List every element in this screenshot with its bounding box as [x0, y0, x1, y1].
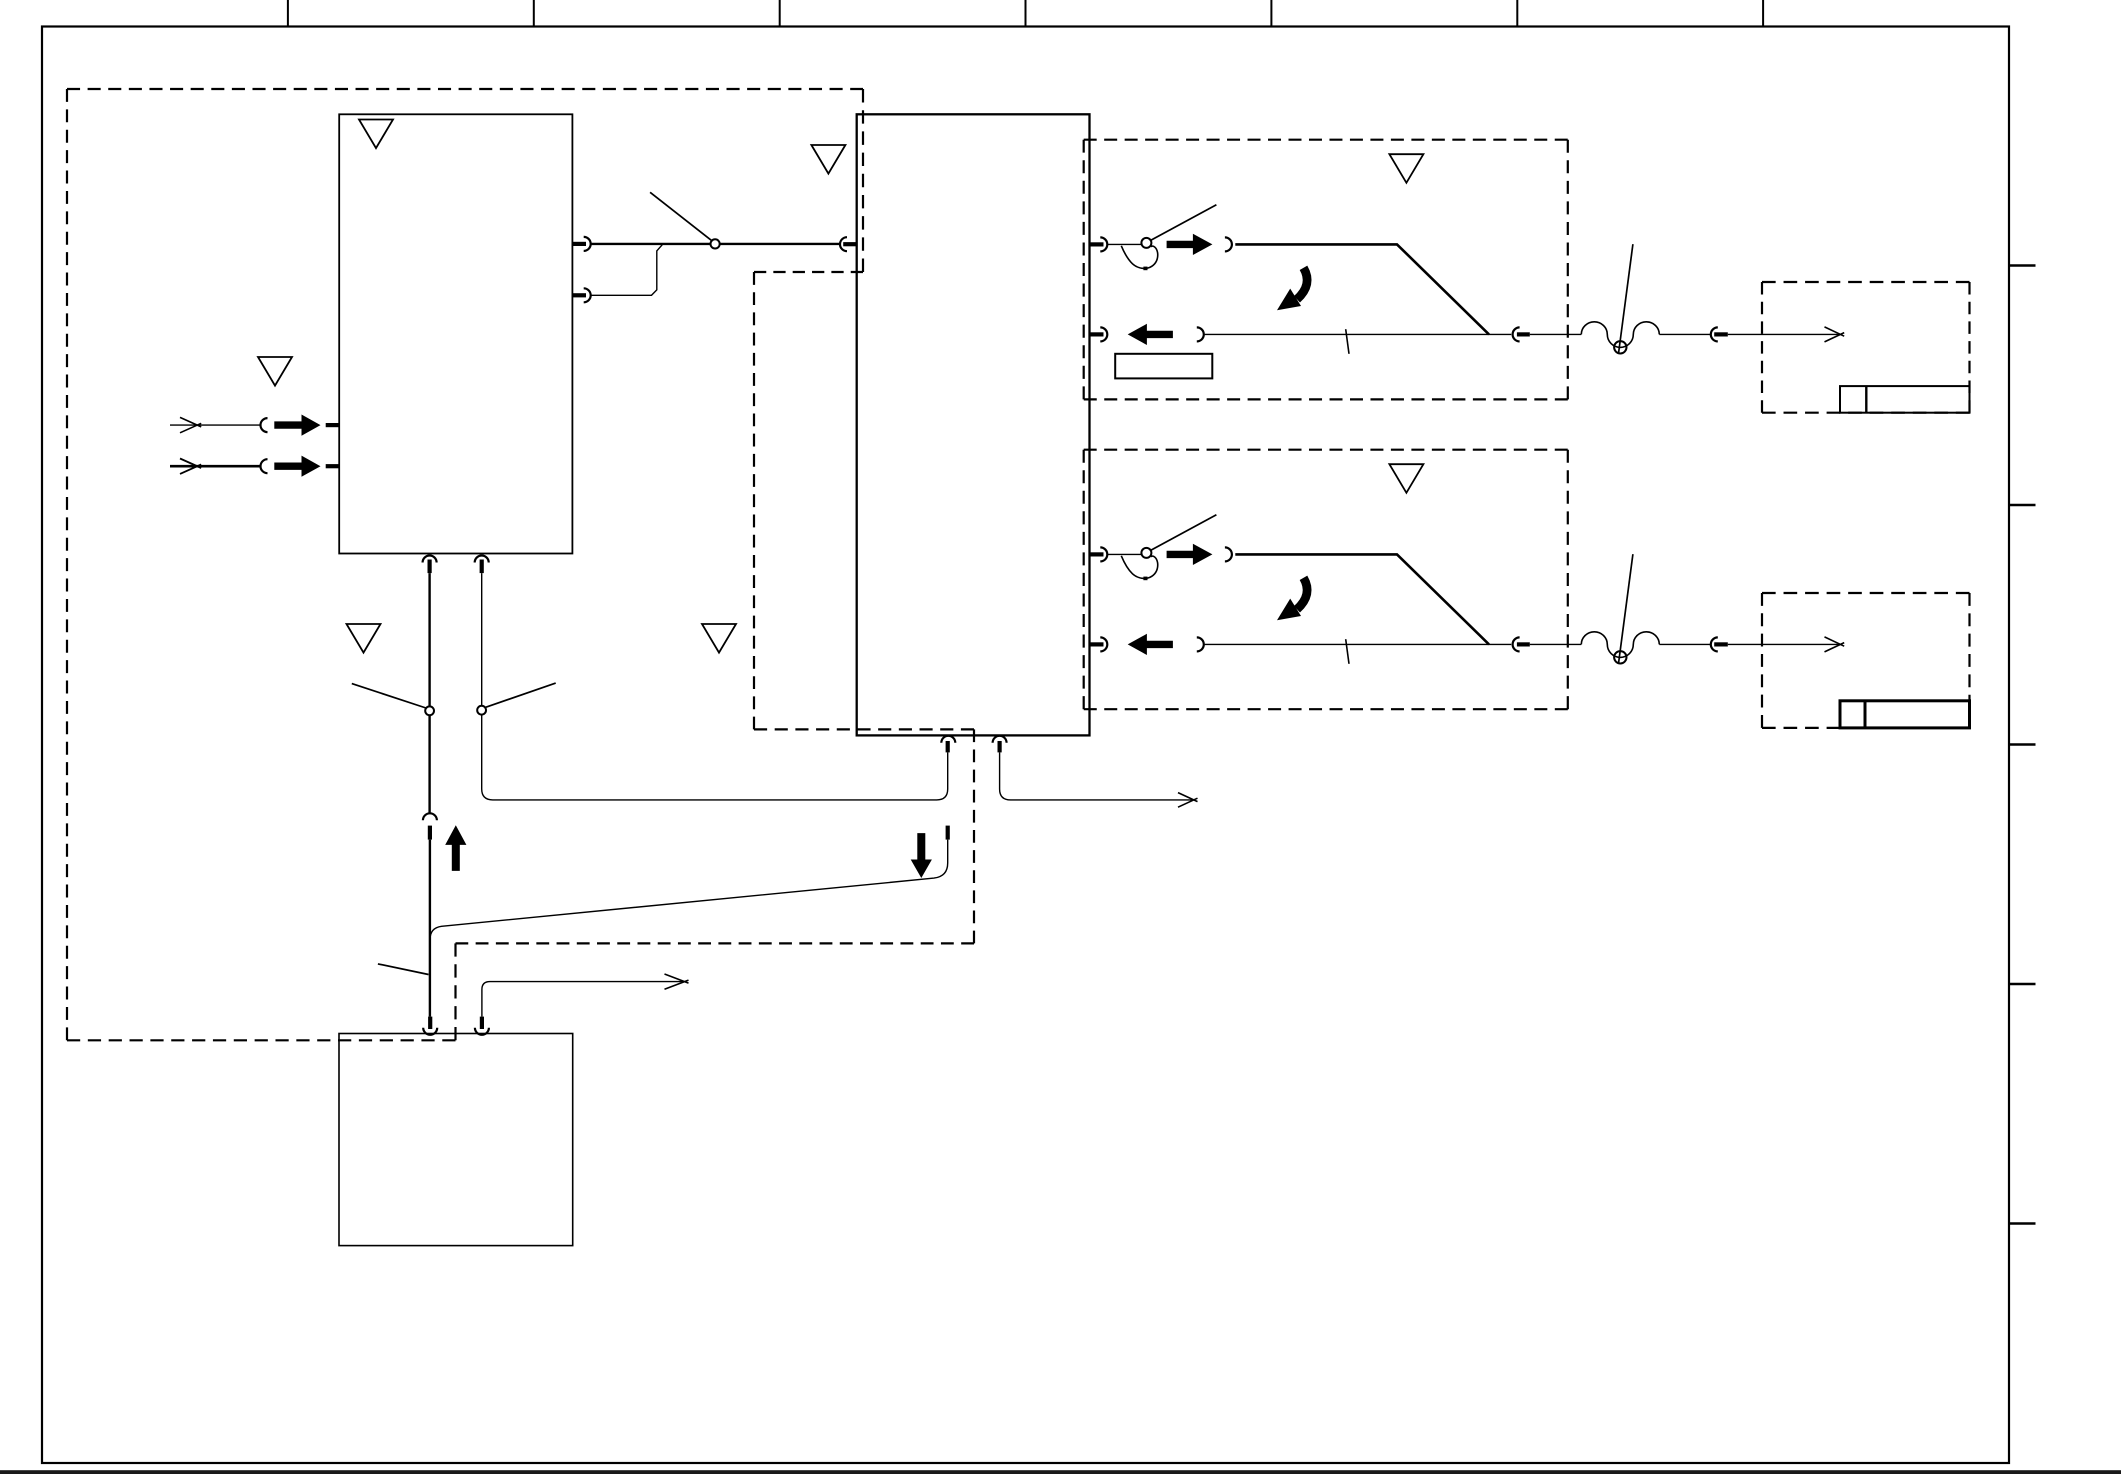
connector socket arc before return wire Z1 [1197, 327, 1204, 341]
connector pin stub at U1 left port 1 [326, 423, 340, 427]
curved rotation arrow Z2 [1277, 578, 1307, 620]
wire U1 right port 2 joining wire above [591, 245, 662, 296]
valve circle C1 [425, 706, 434, 715]
connector at U1 bottom port 2 (socket arc and pin stub) [475, 556, 489, 574]
connector at U2 right port 1b (pin stub and socket arc) [1090, 327, 1108, 341]
damper switch circle Z1 [1141, 238, 1151, 248]
lever at valve C1 [352, 684, 426, 708]
connector at U1 bottom port 1 (socket arc and pin stub) [423, 556, 437, 574]
thermostat pigtail Z1 [1121, 246, 1157, 270]
lever at valve C2 [485, 683, 556, 707]
connector socket arc at inlet 1 [261, 418, 268, 432]
thermostat pigtail Z2 [1121, 556, 1157, 580]
wire from U3 top port 2 to vent with open arrowhead [482, 974, 689, 1017]
inline connector B on wire Z1 (socket arc and pin stub) [1711, 327, 1728, 341]
flow arrow left in Z2 [1128, 634, 1173, 655]
warm air duct wire Z1 (thick, with down slope) [1235, 244, 1489, 334]
dashed outlet box F2 [1762, 593, 1970, 728]
warm air duct wire Z2 (thick, with down slope) [1235, 554, 1489, 644]
dashed enclosure Z1 (upper outlet zone) [1084, 140, 1568, 400]
damper actuator rod Z1 [1619, 244, 1633, 353]
label plate L1 (in zone Z1) [1115, 354, 1212, 379]
connector pin stub at U1 left port 2 [326, 464, 340, 468]
connector at U1 right port 1 (pin stub and socket arc) [572, 237, 590, 251]
inline connector A on wire Z2 (socket arc and pin stub) [1513, 637, 1530, 651]
triangle marker T7 (in zone Z2) [1389, 464, 1423, 493]
label plate F1a (in outlet box F1) [1840, 386, 1970, 413]
open arrowhead into outlet F1 [1825, 327, 1845, 342]
damper actuator circle Z1 [1614, 341, 1626, 353]
flexible duct section Z2 [1581, 632, 1659, 658]
lever at junction J1 [650, 192, 711, 240]
return duct wire Z2 [1205, 643, 1839, 645]
connector at U2 right port 2b (pin stub and socket arc) [1090, 637, 1108, 651]
dashed enclosure Z2 (lower outlet zone) [1084, 450, 1568, 710]
connector at U3 top port 2 (pin stub and socket arc) [475, 1017, 489, 1035]
flow arrow right in Z2 [1167, 544, 1213, 565]
bare pin stub starting recirculation duct wire [946, 826, 950, 840]
inline connector A on wire Z1 (socket arc and pin stub) [1513, 327, 1530, 341]
wire inlet 1 with open arrowhead [170, 417, 260, 432]
triangle marker T5 (left of U2 bottom) [702, 624, 736, 653]
connector socket arc before return wire Z2 [1197, 637, 1204, 651]
inline connector on wire (socket arc and pin stub) [423, 813, 437, 839]
connector at U2 right port 1a (pin stub and socket arc) [1090, 237, 1108, 251]
wire inlet 2 with open arrowhead [170, 459, 260, 474]
wire from U1 bottom port 1 down to U3 [428, 573, 431, 1017]
dashed outlet box F1 [1762, 282, 1970, 413]
connector socket arc after arrow Z1 [1225, 237, 1232, 251]
wire U1 right port 1 to U2 left port [591, 243, 840, 245]
dashed enclosure A (main housing boundary) [67, 89, 974, 1040]
triangle marker T2 (left of U2 top) [811, 145, 845, 174]
wire from U2 bottom port 2 to cabin with open arrowhead [1000, 752, 1198, 807]
triangle marker T4 (above valve circle C1) [347, 624, 381, 653]
connector at U2 bottom port 1 (socket arc and pin stub) [941, 736, 955, 753]
sloped duct wire from stub down-left joining main wire [430, 840, 948, 940]
up flow arrow (recirculation) [445, 825, 466, 871]
inline connector B on wire Z2 (socket arc and pin stub) [1711, 637, 1728, 651]
triangle marker T1 (inside U1) [359, 120, 393, 149]
component box U1 (left tall unit) [339, 114, 572, 553]
flexible duct section Z1 [1581, 322, 1659, 348]
open arrowhead into outlet F2 [1825, 637, 1845, 652]
connector socket arc after arrow Z2 [1225, 547, 1232, 561]
flow arrow left in Z1 [1128, 324, 1173, 345]
flow arrow into U1 (inlet 2) [274, 456, 320, 477]
flow arrow into U1 (inlet 1) [274, 415, 320, 436]
connector at U1 right port 2 (pin stub and socket arc) [572, 288, 590, 302]
junction circle J1 on wire [711, 239, 720, 248]
down flow arrow (fresh air) [911, 833, 932, 878]
damper actuator rod Z2 [1619, 554, 1633, 663]
connector at U2 right port 2a (pin stub and socket arc) [1090, 547, 1108, 561]
condensate slash on wire Z2 [1346, 639, 1349, 664]
component box U2 (center tall unit) [857, 114, 1090, 735]
damper actuator circle Z2 [1614, 651, 1626, 663]
lever at damper switch Z1 [1151, 205, 1217, 241]
valve circle C2 [477, 706, 486, 715]
wire U2 port 2a to damper circle [1108, 553, 1142, 555]
condensate slash on wire Z1 [1346, 329, 1349, 354]
connector at U2 bottom port 2 (socket arc and pin stub) [993, 736, 1007, 753]
label plate F2a (in outlet box F2) [1840, 701, 1970, 728]
damper switch circle Z2 [1141, 548, 1151, 558]
lever on wire above U3 [378, 964, 429, 975]
connector socket arc at inlet 2 [261, 459, 268, 473]
return duct wire Z1 [1205, 333, 1839, 335]
flow arrow right in Z1 [1167, 234, 1213, 255]
wire from U1 bottom port 2 to U2 bottom port 1 [482, 573, 948, 800]
triangle marker T3 (above inlet lines) [258, 357, 292, 386]
curved rotation arrow Z1 [1277, 268, 1307, 310]
wire U2 port 1a to damper circle [1108, 243, 1142, 245]
lever at damper switch Z2 [1151, 515, 1217, 551]
connector at U2 left port (socket arc and pin stub) [840, 237, 857, 251]
connector at U3 top port 1 (pin stub and socket arc) [423, 1017, 437, 1035]
component box U3 (bottom square unit) [339, 1034, 573, 1246]
triangle marker T6 (in zone Z1) [1389, 154, 1423, 183]
